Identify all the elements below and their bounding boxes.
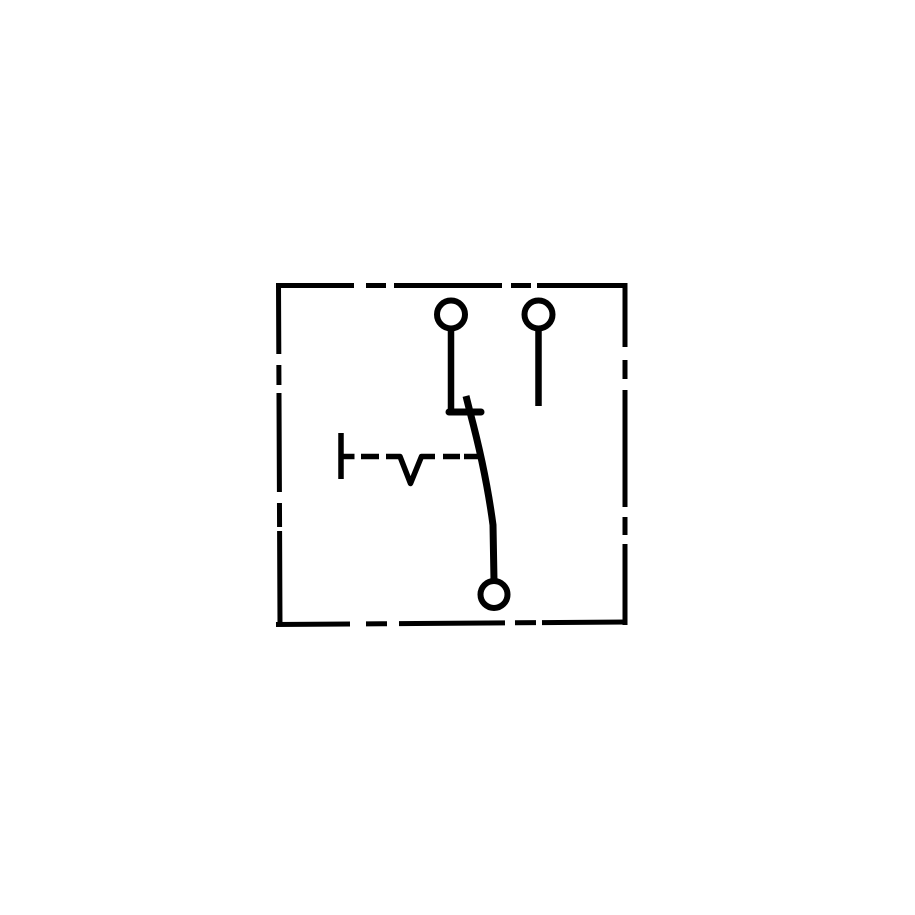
enclosure dashed box: top edge bbox=[276, 283, 628, 288]
fixed contact bar (L foot) bbox=[449, 409, 481, 416]
actuator dashed link: dash 4 bbox=[443, 454, 460, 460]
movable contact lever bbox=[466, 396, 494, 581]
wire from terminal B down bbox=[535, 329, 542, 406]
terminal circle C (bottom) bbox=[481, 581, 508, 608]
actuator end bar bbox=[338, 433, 344, 479]
wire from terminal A down bbox=[448, 329, 455, 412]
enclosure dashed box: right edge bbox=[623, 283, 628, 625]
actuator dashed link: dash 3 with V notch bbox=[386, 457, 435, 484]
enclosure dashed box: bottom edge bbox=[276, 622, 628, 625]
enclosure dashed box: left edge bbox=[279, 283, 281, 627]
terminal circle A (top left) bbox=[437, 301, 465, 329]
actuator dashed link: dash 2 bbox=[361, 454, 379, 460]
terminal circle B (top right) bbox=[525, 301, 553, 329]
actuator dashed link: dash 1 bbox=[343, 454, 355, 460]
actuator dashed link: dash 5 bbox=[464, 454, 478, 460]
